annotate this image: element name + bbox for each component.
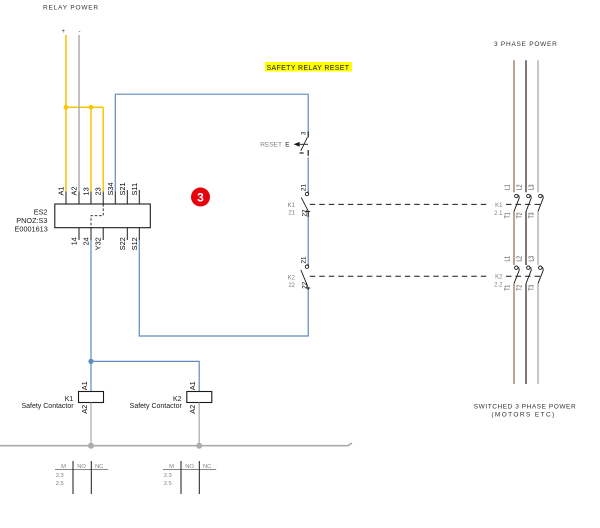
svg-text:T3: T3 [528, 212, 536, 218]
svg-text:NC: NC [95, 464, 103, 470]
svg-text:A2: A2 [80, 405, 89, 414]
pin stub S22 [126, 228, 128, 240]
pin stub 23 [102, 192, 104, 205]
svg-text:+: + [62, 29, 66, 35]
svg-text:22: 22 [301, 281, 308, 288]
wire yellow branch to pin 13 [90, 107, 92, 191]
wire 0V gray vertical to pin A2 [78, 35, 80, 192]
svg-text:2.3: 2.3 [164, 473, 172, 479]
svg-text:A2: A2 [188, 405, 197, 414]
bus line 0V gray [0, 443, 352, 446]
contactor coil K2 [187, 392, 212, 403]
wire blue reset switch to K1 aux contact [307, 157, 309, 191]
svg-text:21: 21 [300, 256, 307, 263]
pin stub S12 [138, 228, 140, 240]
SAFETY RELAY RESET highlighted label [265, 62, 352, 72]
pin stub S11 [138, 190, 140, 204]
svg-text:A1: A1 [80, 381, 89, 390]
svg-text:L3: L3 [528, 184, 536, 190]
svg-text:2.3: 2.3 [56, 473, 64, 479]
svg-text:2.5: 2.5 [56, 481, 64, 487]
svg-text:L1: L1 [504, 184, 512, 190]
wire gray K2 coil to bus [198, 403, 200, 446]
svg-text:T1: T1 [504, 212, 512, 218]
phase line L2 [525, 60, 527, 384]
mechanical linkage dashed K1 [310, 203, 488, 205]
svg-text:SWITCHED 3 PHASE POWER: SWITCHED 3 PHASE POWER [474, 404, 576, 411]
wire blue K1 aux to K2 aux contact [307, 217, 309, 264]
svg-text:L2: L2 [516, 255, 524, 261]
svg-text:3 PHASE POWER: 3 PHASE POWER [494, 41, 558, 48]
safety relay U1 body PNOZ S3 [55, 204, 151, 228]
contactor K2 main contacts [514, 266, 543, 284]
callout 3 red circle [191, 188, 210, 207]
svg-text:T3: T3 [528, 284, 536, 290]
svg-text:S22: S22 [118, 237, 127, 250]
pin stub S34 [114, 192, 116, 205]
pin stub A2 [78, 192, 80, 205]
svg-text:3: 3 [301, 131, 308, 135]
wire yellow horizontal branch [66, 106, 103, 108]
wire blue reset loop: S34 riser, top run, down to reset switch [115, 94, 308, 191]
svg-text:SAFETY RELAY RESET: SAFETY RELAY RESET [267, 65, 350, 72]
svg-text:RESET: RESET [260, 142, 282, 149]
svg-text:K2: K2 [288, 276, 296, 282]
phase line L1 [513, 60, 515, 384]
svg-text:S21: S21 [118, 182, 127, 195]
junction dot yellow at +feed [64, 105, 69, 110]
reset pushbutton contact (NO) [307, 132, 309, 138]
svg-text:NO: NO [77, 464, 86, 470]
svg-text:A1: A1 [57, 186, 66, 195]
svg-text:RELAY POWER: RELAY POWER [43, 5, 99, 12]
svg-text:NO: NO [185, 464, 194, 470]
svg-text:2.5: 2.5 [164, 481, 172, 487]
pin stub Y32 [102, 228, 104, 240]
internal dashed contact 23-24 [91, 204, 103, 228]
svg-text:21: 21 [300, 184, 307, 191]
svg-text:Safety Contactor: Safety Contactor [21, 403, 74, 410]
reset pushbutton actuator arrow [294, 142, 300, 147]
svg-text:E0001613: E0001613 [15, 224, 48, 233]
svg-text:21: 21 [288, 211, 295, 217]
svg-text:ES2: ES2 [34, 207, 48, 216]
pin stub 13 [90, 192, 92, 205]
svg-text:A1: A1 [188, 381, 197, 390]
svg-text:T1: T1 [504, 284, 512, 290]
svg-text:22: 22 [301, 209, 308, 216]
svg-text:T2: T2 [516, 284, 524, 290]
svg-text:L3: L3 [528, 255, 536, 261]
svg-text:23: 23 [94, 187, 103, 195]
terminal table K2 [163, 461, 216, 494]
svg-text:(MOTORS ETC): (MOTORS ETC) [491, 412, 555, 419]
reset pin 4 [300, 152, 304, 154]
svg-text:T2: T2 [516, 212, 524, 218]
svg-text:NC: NC [203, 464, 211, 470]
pin stub S21 [126, 190, 128, 204]
junction dot gray K1 [88, 443, 94, 449]
svg-text:24: 24 [82, 237, 91, 245]
wire yellow branch to pin 23 [102, 107, 104, 191]
svg-text:22: 22 [288, 283, 295, 289]
mechanical linkage dashed K2 [310, 275, 488, 277]
svg-text:A2: A2 [70, 186, 79, 195]
phase line L3 [537, 60, 539, 384]
svg-text:M: M [169, 464, 174, 470]
svg-text:L1: L1 [504, 255, 512, 261]
junction dot yellow at branch 13 [89, 105, 94, 110]
pin stub A1 [65, 192, 67, 205]
svg-text:14: 14 [70, 237, 79, 245]
svg-text:L2: L2 [516, 184, 524, 190]
svg-text:S12: S12 [130, 237, 139, 250]
svg-text:K1: K1 [495, 203, 503, 209]
svg-text:2.1: 2.1 [494, 211, 503, 217]
contactor K1 main contacts [514, 194, 543, 211]
wire gray K1 coil to bus [90, 403, 92, 446]
svg-text:3: 3 [197, 191, 204, 205]
wire blue branch to K2 coil [91, 361, 199, 391]
wire blue pin 24 down to contactor branch [90, 240, 92, 392]
contactor coil K1 [79, 392, 104, 403]
svg-text:2.2: 2.2 [494, 283, 503, 289]
junction dot blue [88, 359, 93, 364]
contact K2 aux NC 21-22 [307, 264, 309, 265]
svg-text:E: E [285, 142, 290, 149]
junction dot gray K2 [196, 443, 202, 449]
svg-text:13: 13 [82, 187, 91, 195]
svg-text:M: M [61, 464, 66, 470]
pin stub 24 [90, 228, 92, 240]
svg-text:-: - [79, 29, 81, 35]
wire +24V yellow vertical to pin A1 [65, 35, 67, 192]
contact K1 aux NC 21-22 [307, 192, 309, 193]
terminal table K1 [55, 461, 108, 494]
svg-text:K1: K1 [288, 203, 296, 209]
svg-text:S34: S34 [106, 182, 115, 195]
svg-text:S11: S11 [130, 183, 139, 196]
svg-text:K2: K2 [495, 275, 503, 281]
pin stub 14 [78, 228, 80, 240]
svg-text:Safety Contactor: Safety Contactor [130, 403, 183, 410]
svg-text:Y32: Y32 [94, 237, 103, 250]
wire blue K2 aux down, bottom run, riser to S12 [139, 240, 308, 336]
